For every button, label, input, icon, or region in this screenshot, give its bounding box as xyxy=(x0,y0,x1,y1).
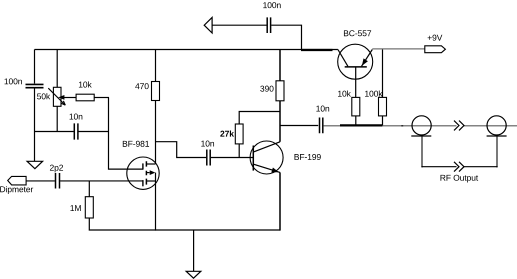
resistor 390 xyxy=(260,81,284,101)
wire joint tick xyxy=(401,125,403,127)
wire 10n line left xyxy=(35,131,74,133)
net +9V tag xyxy=(425,35,446,53)
resistor 1M xyxy=(70,197,93,218)
wire 50k top lead xyxy=(56,50,58,88)
resistor 10k (wiper) xyxy=(76,81,94,100)
wire BC-557 base lead xyxy=(355,67,357,98)
wire 1M bottom lead xyxy=(89,218,155,230)
cable marks (bottom) xyxy=(454,162,464,172)
wire Dipmeter to 2p2 xyxy=(26,180,55,182)
wire +9V rail (left segment) xyxy=(35,49,338,51)
wire drain vertical xyxy=(155,101,157,165)
wire ground stub xyxy=(193,230,195,271)
transistor BF-981 (dual-gate MOSFET) xyxy=(123,141,159,190)
wire 100n to rail xyxy=(271,25,301,49)
wire 1M top lead xyxy=(88,181,90,197)
resistor 10k (base) xyxy=(338,90,360,115)
wire gate2 vertical xyxy=(109,98,143,170)
wire base line xyxy=(211,157,254,159)
wire output line thick segment xyxy=(340,124,382,126)
wire source vertical xyxy=(155,173,157,231)
label RF Output xyxy=(440,175,478,183)
wire 100k bottom lead xyxy=(382,116,384,126)
potentiometer 50k xyxy=(37,87,65,106)
wire 390 top lead xyxy=(279,50,281,81)
wire emitter vertical xyxy=(279,172,281,230)
wire 10k bottom lead xyxy=(355,116,357,126)
capacitor 2p2 xyxy=(50,165,63,189)
ground (left) xyxy=(27,161,42,168)
wire 27k bottom lead xyxy=(238,144,240,158)
wire rail thick segment xyxy=(301,49,333,51)
wire left branch lower xyxy=(34,88,36,161)
wiper arrow into 50k xyxy=(64,97,77,99)
wire 100k top lead xyxy=(382,50,384,98)
cable marks (top) xyxy=(454,121,464,131)
wire ground bus xyxy=(155,229,280,231)
wire collector vertical xyxy=(279,101,281,142)
wire 470 top lead xyxy=(155,50,157,82)
connector Dipmeter tag xyxy=(0,176,33,194)
wire 27k top lead xyxy=(239,112,280,125)
wire drain branch to coupling cap xyxy=(155,142,206,158)
resistor 27k xyxy=(220,124,243,144)
resistor 470 xyxy=(135,82,159,101)
wire 50k bottom lead xyxy=(56,106,58,131)
connector socket (right) xyxy=(487,116,507,136)
connector socket (left) xyxy=(411,116,431,136)
capacitor 10n (output) xyxy=(316,106,329,134)
ground (top, pointing left) xyxy=(204,17,212,33)
wire collector to output cap xyxy=(280,125,318,127)
wire shield path xyxy=(422,136,497,167)
capacitor 100n (left) xyxy=(5,78,44,87)
ground (bottom) xyxy=(186,271,201,278)
capacitor 100n (top) xyxy=(263,2,280,33)
wire left branch upper xyxy=(34,50,36,84)
capacitor 10n (left) xyxy=(70,114,83,140)
resistor 100k xyxy=(365,90,386,115)
wire 2p2 to gate1 xyxy=(60,180,143,182)
wire 10k right lead xyxy=(94,97,109,99)
wire ground to 100n xyxy=(212,24,267,26)
wire +9V rail (right segment) xyxy=(372,48,425,50)
transistor BC-557 (PNP) xyxy=(338,30,373,79)
transistor BF-199 (NPN) xyxy=(250,141,321,174)
capacitor 10n (coupling) xyxy=(201,141,214,166)
wire output line to socket xyxy=(382,125,456,127)
wire output line after cable marks xyxy=(464,125,517,127)
wire output line (gray) xyxy=(323,125,340,127)
wire 10n line right xyxy=(79,131,110,133)
